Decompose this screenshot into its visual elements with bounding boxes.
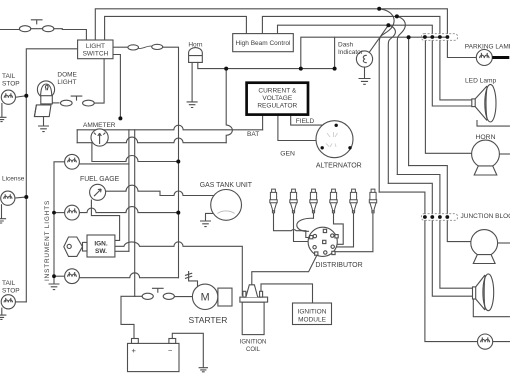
wire block2 to horn2 [447, 221, 471, 242]
instrument lamp 2 [65, 205, 80, 220]
ground gas tank [200, 221, 211, 227]
wire vertical v334 [334, 37, 336, 68]
svg-text:License: License [2, 175, 25, 182]
license lamp [1, 191, 15, 205]
fuel gauge needle [94, 189, 101, 196]
svg-text:−: − [168, 346, 173, 355]
battery terminal right [169, 339, 176, 344]
svg-text:SWITCH: SWITCH [83, 50, 109, 57]
svg-text:GAS TANK UNIT: GAS TANK UNIT [200, 182, 253, 189]
svg-text:+: + [132, 346, 137, 355]
wire led lamp return [477, 121, 509, 127]
svg-text:COIL: COIL [246, 347, 261, 353]
horn2 base [473, 255, 495, 264]
fuse F1 left ellipse [19, 26, 30, 32]
svg-text:BAT: BAT [247, 131, 259, 138]
wire light switch to ign switch stub [113, 55, 120, 118]
ground dome light [38, 126, 49, 132]
wire horn2 output [498, 242, 510, 244]
wire block1 to led lamp lower [432, 41, 472, 107]
gas tank float arm [218, 211, 235, 214]
svg-text:REGULATOR: REGULATOR [257, 103, 297, 110]
svg-text:Dash: Dash [338, 41, 354, 48]
fuse F2 connector [139, 46, 152, 49]
wire ammeter drop to dot [92, 143, 178, 161]
svg-text:MODULE: MODULE [298, 316, 326, 323]
ground battery [199, 368, 208, 372]
spark plug 2 [290, 189, 297, 213]
ammeter circle [91, 129, 108, 146]
wire block2 to rear lamp [425, 221, 478, 342]
fuse F2 left ellipse [128, 45, 139, 50]
wire light switch left to tail feed [26, 49, 77, 302]
ign switch box [87, 235, 115, 257]
wire dome fixture to fuse F3 [51, 102, 60, 104]
grounds [0, 79, 371, 372]
distributor center square [323, 240, 326, 243]
fuse F3 left ellipse [61, 100, 73, 106]
diagonal wire to dash indicator [369, 25, 388, 52]
svg-text:M: M [201, 292, 210, 304]
alternator circle [316, 121, 353, 158]
svg-text:STOP: STOP [2, 288, 20, 295]
svg-text:TAIL: TAIL [2, 280, 16, 287]
wire ign switch to coil [115, 242, 242, 295]
ignition coil body [242, 302, 264, 335]
gas tank ground stub [206, 213, 213, 221]
wire w3 high beam control to junction block [278, 25, 433, 33]
starter solenoid rect [218, 288, 232, 306]
wire lamp1 to v128 [79, 163, 129, 165]
dash indicator filament [363, 55, 367, 62]
distributor to coil diagonal [252, 245, 322, 284]
wire ign switch third terminal [115, 250, 129, 252]
svg-text:VOLTAGE: VOLTAGE [262, 95, 292, 102]
ground instrument lights [49, 284, 60, 290]
wire fuse4 to starter [174, 296, 192, 298]
spark plug wire p6 [333, 213, 373, 251]
ignition coil terminal left [243, 291, 246, 297]
svg-text:STOP: STOP [2, 81, 20, 88]
starter motor circle [192, 284, 217, 309]
junction block 2 dashed [422, 214, 458, 221]
led lamp lens [485, 84, 496, 122]
spark plug wire p5 [337, 213, 354, 247]
ground tail1 [0, 117, 6, 121]
wire regulator BAT drop [262, 115, 264, 130]
horn left symbol [189, 48, 203, 102]
spark plug 1 [270, 189, 277, 213]
svg-text:ALTERNATOR: ALTERNATOR [316, 162, 362, 169]
dome light holder inner line [34, 105, 36, 117]
wire light switch right accessory feed [113, 46, 128, 48]
svg-text:AMMETER: AMMETER [83, 122, 116, 129]
svg-text:HORN: HORN [475, 134, 495, 141]
svg-text:IGN.: IGN. [94, 241, 108, 248]
dot ammeter wire [176, 160, 180, 164]
dash indicator lamp [356, 51, 372, 67]
svg-text:CURRENT &: CURRENT & [258, 88, 296, 95]
thick battery cable to parking lamp right [492, 56, 509, 59]
staircase wire 4 to junction block2 [409, 166, 448, 214]
fuse F1 tick [31, 20, 43, 29]
wire regulator GEN drop [278, 115, 316, 141]
spark plug wire p3 arc [297, 213, 314, 231]
staircase wire 1 to junction block2 [379, 192, 425, 214]
wire battery negative to ground [172, 333, 203, 367]
dot horn junction [224, 67, 228, 71]
spark plugs row [270, 189, 377, 213]
wire fuse F2 to accessory vertical [163, 47, 179, 278]
svg-text:IGNITION: IGNITION [240, 340, 267, 346]
tail stop lamp 1 [1, 90, 15, 104]
wire top left feed [0, 29, 19, 31]
fuse F4 tick [135, 288, 163, 296]
svg-text:IGNITION: IGNITION [298, 308, 327, 315]
alternator terminal dots [321, 124, 352, 150]
dot lamp3 left [52, 274, 56, 278]
ammeter needle [94, 133, 105, 144]
junction block 1 dashed [422, 34, 458, 221]
wire lamp2 left [54, 212, 65, 214]
svg-text:LIGHT: LIGHT [57, 79, 76, 86]
dot high beam drop a [299, 67, 303, 71]
gas tank unit circle [211, 190, 242, 221]
distributor circle [308, 227, 337, 256]
spark plug wire p2 [294, 213, 309, 241]
wire bus to junction block at y37 [301, 37, 448, 68]
wire block2 to speaker lower [432, 221, 472, 297]
instrument lamp 3 [65, 269, 80, 284]
svg-text:Horn: Horn [188, 41, 202, 48]
parking lamp [476, 50, 492, 66]
dome light ground stem [43, 117, 45, 126]
fuse F3 right ellipse [83, 100, 95, 106]
fuel gauge circle [90, 184, 106, 200]
tail stop lamp 2 [1, 295, 15, 309]
dot license feed [24, 195, 28, 199]
svg-text:High Beam Control: High Beam Control [236, 40, 291, 47]
distributor rim squares [310, 229, 339, 255]
ignition module box [293, 303, 332, 325]
wire horn junction run y68.6 [198, 62, 335, 68]
wire horn right output [499, 153, 509, 155]
distributor inner circles [313, 234, 335, 254]
rear lamp filament [481, 337, 490, 342]
fuse F2 right ellipse [152, 44, 163, 49]
ground horn left [187, 102, 198, 108]
rear lamp [478, 334, 493, 349]
instrument lamp 3 filament [68, 272, 77, 277]
wire w2 light switch to high beam control [105, 16, 247, 40]
svg-text:Indicator: Indicator [338, 49, 364, 56]
wire rear lamp output [493, 341, 510, 343]
alternator windings faint [326, 132, 338, 147]
parking lamp filament [480, 53, 489, 58]
horn2 circle [471, 230, 498, 257]
wire fuse F1 to light switch [54, 29, 87, 40]
dome light holder [34, 105, 51, 117]
fuse F1 right ellipse [43, 26, 54, 32]
spark plug wire p4 [334, 213, 344, 244]
instrument lights vertical with ground [54, 162, 65, 284]
ground license [0, 219, 6, 223]
speaker2 lens [483, 274, 494, 311]
led lamp lens inner [486, 86, 487, 120]
led lamp base [472, 99, 475, 107]
wire w2b high beam control to junction block [262, 16, 440, 33]
svg-text:LIGHT: LIGHT [86, 43, 105, 50]
ignition coil flange [240, 297, 268, 302]
spark plug wire p1 [274, 213, 310, 237]
regulator box thick [247, 83, 308, 115]
key blade [83, 242, 88, 251]
block1 dots [423, 35, 427, 39]
wire arc drop from w3 dot to staircase v388 [388, 25, 395, 183]
svg-text:STARTER: STARTER [189, 315, 228, 325]
wire vertical horn junction to bus hop [226, 69, 232, 143]
wire lamp2 to dot with hops [79, 207, 178, 213]
bus bar bottom line with hops [77, 137, 226, 143]
instrument lamp 1 [65, 154, 80, 169]
dash indicator ground stem [364, 67, 366, 78]
wire tail1 to feed [15, 96, 26, 98]
fuse F4 left ellipse [142, 293, 153, 299]
wire battery feed vertical v134 [134, 130, 136, 296]
dot tail1 feed [24, 94, 28, 98]
horn right circle [472, 140, 500, 168]
high beam control box [233, 34, 294, 52]
ground tail2 [0, 315, 6, 319]
wire fuse junction to battery positive [121, 296, 135, 338]
svg-text:GEN: GEN [280, 151, 295, 158]
light switch box [78, 40, 113, 59]
led lamp cone [475, 86, 487, 121]
wire ign feed vertical v128 [128, 130, 130, 252]
wire license to feed [15, 197, 26, 198]
wire lamp3 left [54, 275, 65, 277]
spark plug 6 [369, 189, 376, 213]
coil secondary to ignition module [261, 284, 313, 303]
instrument lamp 2 filament [68, 208, 77, 213]
key hexagon [64, 237, 83, 256]
dome light socket [41, 96, 53, 104]
svg-text:FIELD: FIELD [296, 118, 315, 125]
dot w1 [377, 7, 381, 11]
speaker2 cone [476, 275, 485, 310]
staircase wire 3 to junction block2 [397, 175, 440, 214]
speaker2 lens inner [484, 275, 485, 309]
wire lamp3 to accessory vertical [79, 273, 179, 278]
dot w3 [386, 23, 390, 27]
dot bus v408 [407, 35, 411, 39]
svg-text:PARKING LAMP: PARKING LAMP [465, 44, 510, 51]
fuse F3 tick [71, 96, 82, 100]
bus bar left end [76, 130, 78, 143]
fuse F4 right ellipse [163, 293, 174, 299]
horn right base [474, 166, 497, 175]
battery terminal left [132, 339, 139, 344]
spark plug 3 [310, 189, 317, 213]
wire block1 to led lamp upper [440, 41, 472, 100]
ground dash indicator [359, 79, 371, 85]
svg-text:JUNCTION BLOCK: JUNCTION BLOCK [461, 213, 510, 220]
speaker2 base [473, 287, 476, 299]
wire regulator FIELD drop [291, 115, 323, 126]
wire arc drop from w1 dot to staircase v379 [379, 9, 394, 192]
wire speaker return [473, 299, 509, 317]
wire tail2 to feed [15, 301, 26, 303]
license lamp filament [4, 194, 12, 199]
dot light switch stub end [118, 116, 122, 120]
dot w2b [395, 14, 399, 18]
block2 dots [423, 215, 427, 219]
license lamp ground stem [1, 204, 3, 218]
spark plug 5 [350, 189, 357, 213]
tail lamp 2 filament [4, 298, 12, 303]
bus bar top line with hop [77, 125, 262, 130]
dome light bulb filament [41, 84, 52, 105]
wire fuel gauge to ign switch [91, 200, 119, 240]
svg-text:INSTRUMENT LIGHTS: INSTRUMENT LIGHTS [44, 200, 51, 281]
dot lamp2 left [52, 211, 56, 215]
wire block2 to speaker upper [440, 221, 473, 289]
wire block1 to horn right [425, 41, 471, 154]
wire vertical from bus dot v408 [408, 37, 410, 165]
ignition coil cap [246, 285, 258, 297]
tail lamp 1 ground stem [1, 103, 3, 117]
battery box [128, 343, 180, 371]
wire fuel gauge to gas tank [106, 185, 214, 195]
spark plug 4 [330, 189, 337, 213]
svg-text:LED Lamp: LED Lamp [465, 77, 496, 84]
tail lamp 1 filament [4, 93, 12, 98]
wire fuse F3 to light switch bottom [94, 59, 104, 103]
svg-text:SW.: SW. [95, 248, 107, 255]
dome light bulb [37, 81, 54, 98]
wire block1 to parking lamp [447, 41, 476, 58]
staircase wire 2 to junction block2 [388, 183, 432, 213]
wire w1 top feed from light switch [95, 9, 447, 40]
key hole [67, 244, 71, 248]
svg-text:TAIL: TAIL [2, 73, 16, 80]
starter fusible link [186, 272, 198, 287]
svg-text:DOME: DOME [57, 72, 77, 79]
wire arc drop from w2b dot to staircase v397 [397, 16, 405, 174]
svg-text:DISTRIBUTOR: DISTRIBUTOR [315, 262, 362, 269]
ignition coil terminal right [260, 291, 263, 297]
dot lamp2 wire [176, 211, 180, 215]
tail lamp 2 ground stem [1, 308, 3, 315]
instrument lamp 1 filament [68, 158, 77, 163]
dot high beam drop b [333, 67, 337, 71]
svg-text:FUEL GAGE: FUEL GAGE [80, 176, 120, 183]
